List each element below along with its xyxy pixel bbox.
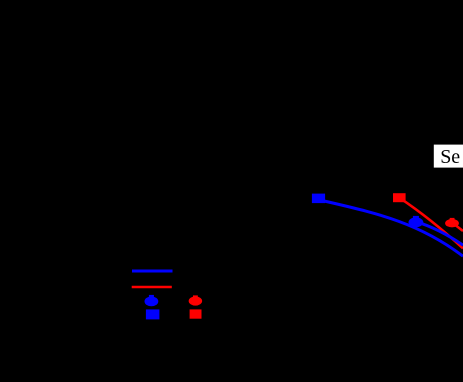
blue curve (squares series) [318, 200, 463, 257]
legend blue line sample [132, 270, 173, 273]
legend red square marker [190, 309, 202, 318]
svg-text:Se: Se [440, 146, 460, 168]
red square marker [393, 193, 406, 202]
legend red line sample [132, 286, 172, 289]
red curve (circles series) [452, 223, 463, 232]
legend blue circle marker [145, 295, 159, 306]
blue square marker [312, 194, 325, 204]
blue circle marker [409, 216, 424, 227]
legend box (cut off at right edge) [434, 145, 463, 168]
legend blue square marker [146, 309, 160, 319]
red circle marker [445, 218, 459, 228]
legend red circle marker [189, 295, 203, 305]
blue curve (circles series) [415, 221, 463, 245]
red curve (squares series) [399, 198, 463, 249]
